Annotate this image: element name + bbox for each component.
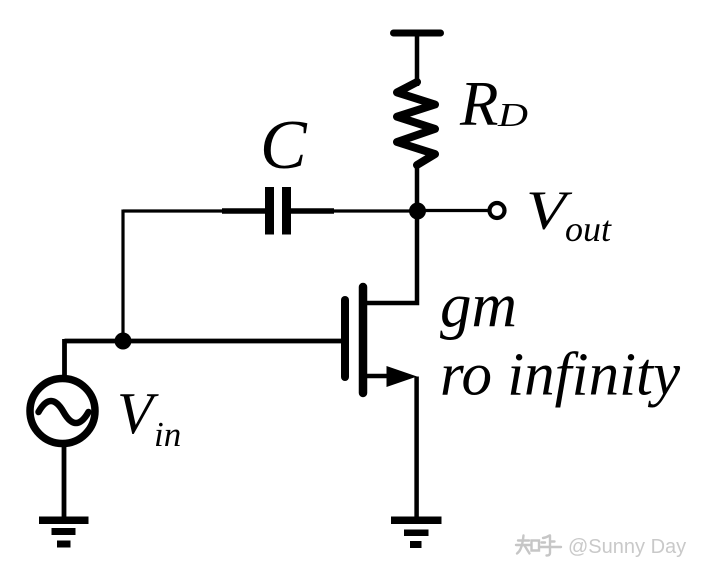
ground (Vin) bar 1 — [39, 517, 89, 525]
wire gate horizontal — [65, 339, 346, 344]
output terminal open circle — [490, 203, 505, 218]
wire node to output terminal — [417, 209, 489, 212]
transistor M1 channel bar — [359, 287, 368, 393]
voltage source sine wave — [39, 401, 89, 423]
wire resistor to output node — [415, 163, 420, 213]
wire capacitor right thin lead to node — [332, 209, 417, 212]
svg-text:V: V — [117, 380, 159, 446]
ground (source) bar 1 — [391, 517, 442, 525]
ground (Vin) bar 2 — [52, 528, 76, 535]
capacitor C right thick lead — [291, 208, 334, 214]
capacitor C left thick lead — [222, 208, 265, 214]
node gate junction dot — [115, 333, 132, 350]
ground (source) bar 2 — [404, 530, 429, 537]
voltage source Vin circle — [30, 379, 95, 444]
svg-text:gm: gm — [440, 271, 517, 341]
svg-text:out: out — [565, 209, 612, 249]
wire VDD rail to resistor — [415, 33, 420, 86]
svg-text:D: D — [497, 97, 529, 134]
svg-text:@Sunny Day: @Sunny Day — [568, 536, 686, 558]
wire left vertical from capacitor down to gate net — [121, 210, 124, 342]
wire capacitor left thin lead — [123, 209, 224, 212]
transistor source arrow — [387, 366, 418, 387]
svg-text:C: C — [260, 107, 308, 184]
wire source from channel right then down to ground — [363, 374, 402, 379]
ground (Vin) bar 3 — [57, 541, 71, 548]
ground (source) bar 3 — [410, 541, 422, 548]
wire source vertical down to ground — [414, 377, 419, 520]
wire Vin source to ground — [62, 443, 67, 519]
svg-text:R: R — [459, 69, 498, 139]
resistor RD zigzag — [397, 82, 435, 165]
wire drain from node down to channel — [363, 209, 417, 303]
VDD supply rail — [394, 30, 441, 37]
svg-text:in: in — [154, 415, 181, 454]
watermark zhihu logo — [516, 536, 561, 556]
capacitor C right plate — [282, 187, 291, 235]
wire corner down to Vin source — [62, 339, 67, 381]
capacitor C left plate — [265, 187, 274, 235]
transistor M1 gate bar — [341, 300, 349, 377]
svg-text:ro infinity: ro infinity — [440, 342, 681, 409]
node output junction dot — [409, 203, 426, 220]
